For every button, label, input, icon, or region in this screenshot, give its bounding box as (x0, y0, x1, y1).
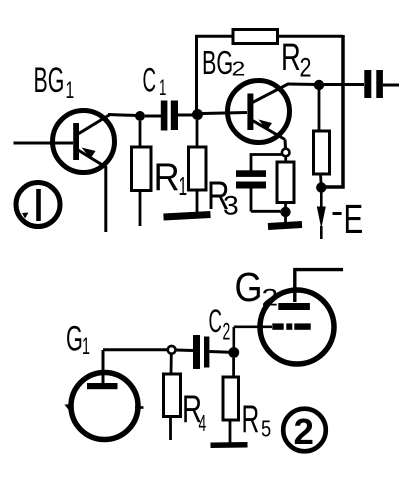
capacitor emitter bypass (236, 155, 282, 212)
resistor emitter (unlabeled) (277, 156, 294, 207)
wire base BG2 (202, 113, 247, 114)
svg-text:1: 1 (82, 333, 90, 360)
resistor R5 (223, 358, 239, 443)
svg-text:2: 2 (294, 411, 314, 452)
wire left rail (node B up) (195, 36, 198, 110)
transistor BG1 (53, 111, 115, 173)
svg-text:1: 1 (66, 78, 75, 104)
svg-text:G: G (66, 320, 83, 358)
svg-text:C: C (143, 61, 157, 99)
wire ring to C2 (176, 349, 193, 353)
ground below R5 (211, 442, 248, 448)
tube G1 (65, 350, 144, 440)
svg-text:2: 2 (232, 58, 246, 80)
label C1 (143, 61, 167, 100)
wire emitter to ring (284, 140, 288, 149)
capacitor C2 (193, 335, 230, 369)
label R5 (242, 396, 272, 442)
wire emitter BG1 down (104, 166, 107, 232)
svg-text:2: 2 (223, 319, 231, 346)
wire right rail down (325, 35, 343, 187)
node A (135, 111, 145, 121)
wire base BG1 (14, 142, 74, 145)
wire G1 anode to ring node (103, 348, 167, 351)
label R2 (281, 37, 312, 83)
wire collector BG1 to node A (108, 115, 137, 116)
node B (192, 109, 203, 120)
label BG2 (202, 44, 245, 81)
tube G2 (260, 290, 334, 364)
ground below R3 (164, 215, 211, 218)
wire grid lead (234, 327, 272, 348)
svg-text:E: E (344, 196, 364, 242)
svg-text:2: 2 (300, 53, 312, 83)
label G2 (235, 265, 279, 311)
resistor R2 (233, 30, 278, 44)
node E (280, 207, 290, 217)
resistor R1 (132, 121, 152, 226)
svg-text:5: 5 (261, 417, 271, 442)
node ring (circuit 2) (168, 346, 176, 354)
label BG1 (34, 62, 75, 104)
svg-text:1: 1 (159, 76, 166, 100)
callout 1 (16, 183, 60, 227)
node ring (emitter junction) (282, 149, 290, 157)
wire G2 anode to supply (293, 270, 343, 302)
svg-text:BG: BG (34, 62, 65, 101)
node C (314, 80, 324, 90)
wire top rail left (195, 35, 234, 38)
svg-text:3: 3 (223, 190, 239, 220)
label R3 (207, 173, 239, 220)
label R4 (182, 387, 206, 437)
resistor R3 (189, 120, 207, 213)
label G1 (66, 320, 90, 360)
svg-text:1: 1 (179, 172, 188, 201)
ground below emitter resistor (284, 214, 287, 223)
node F (228, 347, 239, 358)
svg-text:4: 4 (199, 412, 207, 437)
svg-text:C: C (209, 303, 222, 340)
label -E (333, 196, 364, 242)
capacitor output (324, 70, 399, 98)
resistor collector load (unlabeled) (314, 90, 330, 183)
svg-text:2: 2 (262, 283, 279, 310)
wire top rail right (276, 35, 343, 38)
wire collector BG2 to node C (288, 83, 316, 87)
svg-text:R: R (242, 396, 260, 440)
svg-text:R: R (281, 37, 301, 79)
supply terminal -E (317, 193, 326, 240)
svg-text:BG: BG (202, 44, 233, 81)
label C2 (209, 303, 231, 346)
callout 2 (283, 409, 326, 452)
svg-text:R: R (154, 155, 180, 198)
label R1 (154, 155, 188, 201)
svg-text:G: G (235, 265, 263, 311)
resistor R4 (164, 354, 181, 440)
transistor BG2 (228, 81, 290, 143)
node D (316, 182, 326, 192)
capacitor C1 (145, 101, 193, 131)
